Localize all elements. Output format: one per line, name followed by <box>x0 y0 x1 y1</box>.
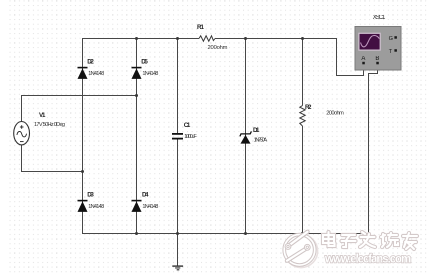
svg-text:D3: D3 <box>87 191 94 198</box>
diode D5 <box>132 67 142 79</box>
svg-text:200ohm: 200ohm <box>326 111 344 117</box>
node top rail / D1 <box>244 37 247 40</box>
node V1 plus junction <box>135 94 138 97</box>
svg-text:C1: C1 <box>184 122 191 129</box>
node bottom rail / bridge right <box>135 232 138 235</box>
oscilloscope XSC1 <box>355 27 401 71</box>
node top rail / bridge right <box>135 37 138 40</box>
wire scope A drop <box>337 39 365 76</box>
wire bridge right branch <box>136 38 138 234</box>
node bottom rail / ground <box>176 232 179 235</box>
svg-text:R2: R2 <box>305 104 312 111</box>
diode D4 <box>132 200 142 212</box>
svg-text:17V 50Hz 0Deg: 17V 50Hz 0Deg <box>34 122 65 128</box>
svg-text:200ohm: 200ohm <box>208 45 228 51</box>
svg-text:D2: D2 <box>87 58 94 65</box>
wire R2 branch lower <box>302 126 304 234</box>
svg-text:D4: D4 <box>142 191 149 198</box>
ground <box>172 265 183 270</box>
wire top rail right of R1 <box>215 38 337 40</box>
wire scope A rise <box>363 64 365 77</box>
diode D2 <box>78 67 88 79</box>
svg-text:V1: V1 <box>39 112 46 119</box>
node V1 minus junction <box>81 170 84 173</box>
svg-text:1N750A: 1N750A <box>254 137 268 143</box>
svg-text:1N4148: 1N4148 <box>142 204 158 210</box>
watermark logo elecfans <box>283 232 318 268</box>
svg-text:R1: R1 <box>197 24 205 31</box>
watermark chinese text dian zi fa shao you <box>323 232 417 249</box>
node top rail / C1 <box>176 37 179 40</box>
node top rail / R2 <box>301 37 304 40</box>
node bottom rail / R2 <box>301 232 304 235</box>
svg-text:A: A <box>361 56 365 62</box>
diode D3 <box>78 200 88 212</box>
svg-text:XSC1: XSC1 <box>373 15 386 21</box>
node bottom rail / D1 <box>244 232 247 235</box>
wire V1 minus <box>22 145 84 172</box>
svg-text:B: B <box>375 56 379 62</box>
wire R2 branch upper <box>302 38 304 106</box>
svg-text:1000uF: 1000uF <box>184 134 197 140</box>
wire scope B jog <box>369 74 379 234</box>
svg-text:1N4148: 1N4148 <box>142 71 158 77</box>
svg-text:www.elecfans.com: www.elecfans.com <box>324 254 412 266</box>
wire C1 branch upper <box>177 38 179 133</box>
svg-text:1N4148: 1N4148 <box>88 204 104 210</box>
wire bottom rail <box>82 233 369 235</box>
wire C1 branch lower <box>177 140 179 234</box>
svg-text:D5: D5 <box>141 58 148 65</box>
wire ground stem <box>177 234 179 267</box>
wire top rail left of R1 <box>82 38 199 40</box>
wire D1 branch <box>245 38 247 234</box>
capacitor C1 <box>172 133 183 140</box>
resistor R2 <box>300 106 305 127</box>
svg-text:T: T <box>389 49 393 55</box>
zener diode D1 <box>240 131 252 136</box>
wire bridge left branch <box>82 38 84 234</box>
svg-text:G: G <box>389 36 393 42</box>
wire scope B down <box>377 64 379 74</box>
svg-text:D1: D1 <box>253 127 260 134</box>
wire V1 plus <box>22 96 138 122</box>
svg-text:1N4148: 1N4148 <box>88 71 104 77</box>
AC source V1 <box>14 122 30 145</box>
resistor R1 <box>199 36 215 41</box>
